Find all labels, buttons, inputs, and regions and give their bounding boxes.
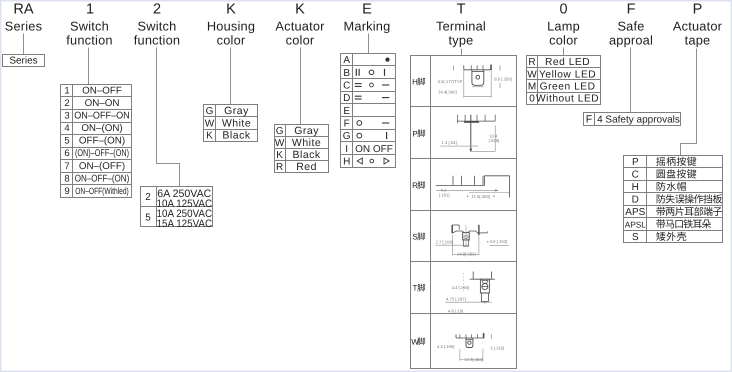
table lamp color	[527, 56, 601, 105]
svg-text:4: 4	[64, 123, 69, 134]
svg-text:White: White	[292, 137, 321, 149]
header code letter F	[627, 2, 636, 18]
svg-text:4.8 [.19]: 4.8 [.19]	[448, 308, 463, 313]
svg-text:W: W	[527, 69, 537, 80]
table switch function 1 (rows 1-9)	[61, 85, 132, 198]
wire actuator color	[300, 48, 302, 125]
svg-text:R: R	[528, 57, 535, 68]
terminal drawing T	[445, 272, 495, 314]
svg-text:APSL: APSL	[625, 220, 647, 230]
column label Terminal type	[436, 19, 486, 48]
svg-text:P: P	[693, 2, 703, 18]
table actuator color	[275, 125, 329, 174]
svg-text:C: C	[343, 81, 350, 92]
column label Series	[5, 19, 42, 34]
svg-text:1.3 [.04]: 1.3 [.04]	[442, 140, 457, 145]
svg-text:P: P	[412, 129, 417, 138]
svg-text:I: I	[345, 144, 348, 155]
svg-text:2.7 [.106]: 2.7 [.106]	[436, 239, 453, 244]
svg-text:K: K	[206, 131, 213, 142]
svg-text:H: H	[343, 157, 350, 168]
svg-text:9: 9	[64, 186, 69, 197]
svg-text:ON–(OFF): ON–(OFF)	[79, 161, 125, 172]
svg-text:White: White	[222, 117, 251, 129]
svg-text:function: function	[66, 33, 112, 48]
svg-text:14.4[.566]: 14.4[.566]	[438, 90, 457, 95]
marking symbols rows A-H	[355, 58, 393, 165]
column label Housing color	[207, 19, 255, 48]
svg-text:APS: APS	[625, 207, 645, 218]
header code letter 2	[153, 2, 161, 18]
svg-text:Gray: Gray	[224, 105, 249, 117]
svg-text:Lamp: Lamp	[547, 19, 580, 34]
svg-text:6: 6	[64, 148, 69, 159]
wire Series	[23, 34, 25, 55]
svg-text:Series: Series	[5, 19, 42, 34]
svg-text:Without LED: Without LED	[536, 94, 599, 105]
svg-text:P: P	[632, 157, 639, 168]
svg-text:4.4 [.166]: 4.4 [.166]	[437, 344, 454, 349]
column label Marking	[344, 19, 391, 34]
svg-text:H: H	[412, 78, 418, 87]
header code letter E	[362, 2, 372, 18]
terminal row label W	[411, 337, 425, 346]
svg-text:8: 8	[64, 173, 69, 184]
svg-text:E: E	[343, 106, 350, 117]
svg-text:0: 0	[529, 94, 535, 105]
terminal row label S	[412, 232, 425, 241]
svg-text:color: color	[549, 33, 578, 48]
svg-text:1: 1	[64, 86, 69, 97]
terminal row label T	[413, 284, 425, 293]
svg-text:4.4 [.166]: 4.4 [.166]	[452, 285, 469, 290]
svg-text:Safe: Safe	[617, 19, 644, 34]
svg-text:3.9 [.153]: 3.9 [.153]	[490, 239, 507, 244]
svg-text:Yellow LED: Yellow LED	[539, 69, 596, 80]
svg-text:Switch: Switch	[70, 19, 109, 34]
svg-text:[.528]: [.528]	[489, 138, 499, 143]
svg-text:Switch: Switch	[138, 19, 177, 34]
terminal drawing R	[436, 176, 510, 199]
svg-text:2: 2	[145, 192, 151, 203]
svg-text:G: G	[343, 131, 351, 142]
header code letter P	[693, 2, 703, 18]
svg-text:D: D	[632, 195, 639, 206]
svg-text:0: 0	[559, 2, 567, 18]
svg-text:ON–OFF(Withled): ON–OFF(Withled)	[75, 186, 129, 196]
svg-text:Housing: Housing	[207, 19, 255, 34]
wire safe approval	[630, 48, 632, 113]
table marking grid	[341, 54, 396, 168]
wire lamp color	[563, 48, 565, 56]
svg-text:F: F	[344, 119, 350, 130]
table switch function 2 (ratings)	[141, 187, 213, 231]
svg-text:R: R	[276, 162, 283, 173]
svg-text:M: M	[528, 82, 536, 93]
column label Safe approal	[609, 19, 653, 48]
svg-text:S: S	[632, 232, 639, 243]
svg-text:Actuator: Actuator	[275, 19, 325, 34]
header code letter K	[295, 2, 305, 18]
svg-text:F: F	[586, 113, 592, 125]
svg-text:4.5(.177)TYP: 4.5(.177)TYP	[438, 79, 463, 84]
svg-text:5: 5	[64, 136, 69, 147]
svg-text:H: H	[632, 182, 639, 193]
terminal row label P	[412, 129, 425, 138]
terminal row label R	[412, 181, 425, 190]
svg-text:type: type	[449, 33, 474, 48]
svg-text:ON–OFF–ON: ON–OFF–ON	[74, 111, 130, 122]
svg-text:function: function	[134, 33, 180, 48]
safety approvals box	[584, 113, 681, 126]
svg-text:4.1: 4.1	[441, 187, 447, 192]
wire switch function 2	[157, 48, 180, 187]
svg-text:Red: Red	[296, 161, 317, 173]
wire actuator tape	[681, 49, 697, 156]
svg-text:S: S	[412, 232, 417, 241]
svg-text:Actuator: Actuator	[673, 19, 723, 34]
table terminal type grid	[411, 56, 517, 369]
svg-text:K: K	[295, 2, 305, 18]
svg-text:D: D	[343, 93, 350, 104]
svg-text:RA: RA	[13, 2, 33, 18]
svg-text:ON–OFF: ON–OFF	[82, 86, 122, 97]
svg-text:Gray: Gray	[294, 125, 319, 137]
wire housing color	[230, 48, 232, 105]
svg-text:Red LED: Red LED	[545, 57, 590, 68]
svg-text:3: 3	[64, 111, 69, 122]
svg-text:T: T	[457, 2, 466, 18]
svg-text:2: 2	[64, 98, 69, 109]
svg-text:Terminal: Terminal	[436, 19, 486, 34]
svg-text:K: K	[276, 150, 283, 161]
header code letter T	[457, 2, 466, 18]
svg-text:12.3[.484]: 12.3[.484]	[464, 357, 483, 362]
svg-text:T: T	[413, 284, 418, 293]
terminal row label H	[412, 78, 425, 87]
svg-text:color: color	[217, 33, 246, 48]
svg-text:Green LED: Green LED	[540, 82, 596, 93]
svg-text:W: W	[275, 138, 285, 149]
header code letter K	[226, 2, 236, 18]
column label Actuator color	[275, 19, 325, 48]
svg-text:G: G	[206, 106, 214, 117]
svg-text:Black: Black	[222, 130, 250, 142]
svg-text:2: 2	[153, 2, 161, 18]
header code letter 0	[559, 2, 567, 18]
svg-text:Black: Black	[293, 149, 321, 161]
terminal drawing W	[437, 333, 504, 362]
svg-text:approal: approal	[609, 33, 653, 48]
svg-text:11.5[.453]: 11.5[.453]	[472, 194, 490, 199]
table housing color	[204, 105, 258, 142]
svg-text:ON OFF: ON OFF	[355, 144, 393, 155]
svg-text:7: 7	[64, 161, 69, 172]
svg-text:ON–(ON): ON–(ON)	[81, 123, 122, 134]
terminal drawing H	[438, 65, 512, 98]
svg-text:1: 1	[86, 2, 94, 18]
svg-text:3 [.118]: 3 [.118]	[490, 346, 504, 351]
wire terminal type	[461, 49, 463, 56]
svg-text:G: G	[276, 126, 284, 137]
svg-text:Marking: Marking	[344, 19, 391, 34]
svg-text:5: 5	[145, 212, 151, 223]
svg-text:F: F	[627, 2, 636, 18]
column label Actuator tape	[673, 19, 723, 48]
svg-text:W: W	[205, 118, 215, 129]
wire switch function 1	[88, 48, 90, 85]
terminal drawing S	[436, 225, 509, 257]
svg-text:[.161]: [.161]	[439, 193, 449, 198]
svg-text:OFF–(ON): OFF–(ON)	[79, 136, 125, 147]
svg-text:ON–OFF–(ON): ON–OFF–(ON)	[75, 173, 130, 184]
column label Lamp color	[547, 19, 580, 48]
table actuator tape	[624, 156, 723, 244]
wire marking	[368, 34, 370, 54]
svg-text:Series: Series	[9, 56, 37, 67]
svg-text:4 Safety approvals: 4 Safety approvals	[597, 114, 680, 125]
svg-text:tape: tape	[685, 33, 711, 48]
svg-text:15A 125VAC: 15A 125VAC	[157, 218, 213, 230]
svg-text:8.6 [.339]: 8.6 [.339]	[494, 77, 511, 82]
svg-text:K: K	[226, 2, 236, 18]
svg-text:R: R	[412, 181, 418, 190]
svg-text:C: C	[632, 170, 639, 181]
column label Switch function	[134, 19, 180, 48]
svg-text:ON–ON: ON–ON	[85, 98, 120, 109]
svg-text:(ON)–OFF–(ON): (ON)–OFF–(ON)	[75, 148, 129, 159]
svg-text:color: color	[286, 33, 315, 48]
svg-text:B: B	[343, 68, 350, 79]
header code letter RA	[13, 2, 33, 18]
terminal drawing P	[440, 115, 499, 152]
header code letter 1	[86, 2, 94, 18]
svg-text:4.75 [.187]: 4.75 [.187]	[446, 297, 466, 302]
svg-text:A: A	[343, 55, 350, 66]
column label Switch function	[66, 19, 112, 48]
svg-text:E: E	[362, 2, 372, 18]
series box	[3, 55, 45, 67]
svg-text:14.8[.583]: 14.8[.583]	[457, 251, 476, 256]
